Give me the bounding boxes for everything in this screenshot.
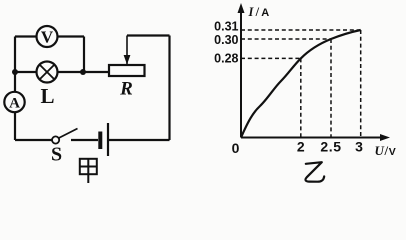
wire: bottom segment battery to right corner [109, 139, 170, 141]
ammeter A [4, 92, 24, 112]
svg-text:3: 3 [355, 139, 363, 155]
switch S [52, 129, 78, 144]
svg-text:S: S [51, 144, 62, 166]
svg-text:U/V: U/V [375, 143, 397, 158]
battery cell [100, 123, 108, 156]
wire: slider top horizontal [127, 34, 170, 36]
dashed line vertical at 2.5 [330, 39, 332, 138]
graph: x-axis U [241, 134, 390, 141]
dashed line vertical at 3 [360, 30, 362, 138]
rheostat R body [109, 65, 145, 76]
label yi (乙) drawn strokes [305, 162, 324, 182]
dashed line 0.31 horizontal [241, 29, 361, 31]
wire: right vertical (rheostat slider return) [168, 36, 170, 141]
voltmeter U1 (V) [37, 26, 58, 47]
svg-text:R: R [119, 79, 133, 100]
label jia (甲) drawn strokes [80, 159, 97, 183]
wire: bottom left segment to switch [15, 139, 53, 141]
svg-text:L: L [40, 84, 54, 108]
wire: top horizontal through voltmeter [15, 35, 84, 37]
wire: lamp row horizontal into rheostat [15, 71, 110, 73]
wire: left vertical (top loop to bottom wire) [14, 37, 16, 141]
svg-text:0.30: 0.30 [214, 33, 238, 47]
svg-text:0.31: 0.31 [214, 20, 238, 34]
wire: right vertical of voltmeter branch [83, 37, 85, 73]
wire: bottom segment switch to battery [71, 139, 98, 141]
I-U curve [241, 30, 361, 138]
svg-text:A: A [9, 96, 20, 112]
svg-text:I/A: I/A [248, 5, 272, 19]
svg-text:0: 0 [232, 140, 240, 156]
dashed line vertical at 2 [300, 58, 302, 137]
dashed line 0.30 horizontal [241, 38, 331, 40]
dashed line 0.28 horizontal [241, 57, 301, 59]
lamp L (circle with X) [37, 62, 58, 83]
graph: y-axis I [238, 3, 245, 138]
svg-text:0.28: 0.28 [214, 52, 238, 66]
node: junction dot left of lamp [12, 69, 18, 75]
rheostat slider arrow [124, 36, 131, 65]
svg-text:V: V [41, 28, 54, 47]
svg-text:2.5: 2.5 [320, 139, 341, 155]
node: junction dot right of lamp [80, 69, 86, 75]
svg-text:2: 2 [297, 139, 305, 155]
